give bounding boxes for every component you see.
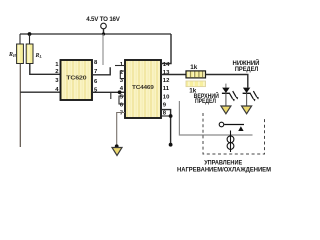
svg-text:11: 11 xyxy=(163,86,170,92)
wire U2 pin 13 to R1 xyxy=(161,74,186,76)
svg-text:10: 10 xyxy=(163,95,170,101)
node end dot xyxy=(169,143,173,147)
resistor R1 1k xyxy=(186,71,206,78)
heater coil xyxy=(227,131,234,153)
wire dangling stub xyxy=(110,92,112,99)
node ground junction xyxy=(115,144,119,148)
wire U2 pins 2-3 bracket xyxy=(120,71,125,79)
IC U2 TC4469 xyxy=(125,60,161,118)
node junction U2 pin 4 xyxy=(118,90,122,94)
wire U2 pin 9 down xyxy=(161,110,171,145)
wire U1 pin 7 stub up xyxy=(92,67,110,75)
ground symbol main xyxy=(112,148,122,156)
switch actuator arrow xyxy=(238,126,243,131)
wire RH bottom long drop xyxy=(19,64,21,148)
switch contact xyxy=(219,122,224,127)
svg-text:1k: 1k xyxy=(190,64,198,71)
wire bus corner to U2 pin 14 xyxy=(161,34,171,64)
IC U1 TC620 xyxy=(61,60,93,100)
wire U2 pins 5-6 bracket xyxy=(119,96,125,104)
ground symbol LED D2 xyxy=(242,106,252,114)
svg-text:ПРЕДЕЛ: ПРЕДЕЛ xyxy=(235,66,259,73)
wire R1 to LED2 corner xyxy=(206,75,248,88)
wire U2 pin 1 stub xyxy=(115,65,125,67)
resistor RH xyxy=(17,44,24,64)
LED D2 lower limit xyxy=(243,88,259,106)
wire RL top xyxy=(29,34,31,44)
wire U1 pin 5 to U2 pin 4 xyxy=(92,91,125,93)
wire power drop xyxy=(102,34,104,65)
svg-text:TC4469: TC4469 xyxy=(132,85,154,91)
svg-text:УПРАВЛЕНИЕ: УПРАВЛЕНИЕ xyxy=(204,160,242,167)
svg-text:TC620: TC620 xyxy=(66,76,86,82)
wire RH top xyxy=(19,34,21,44)
node junction supply xyxy=(102,32,105,35)
node junction RL xyxy=(28,32,32,36)
node junction pin 8 xyxy=(169,114,173,118)
wire U2 pin 8 stub xyxy=(161,115,171,117)
control box dashed xyxy=(203,113,265,154)
svg-text:НАГРЕВАНИЕМ/ОХЛАЖДЕНИЕМ: НАГРЕВАНИЕМ/ОХЛАЖДЕНИЕМ xyxy=(177,167,271,174)
resistor RL xyxy=(26,44,33,64)
wire RL to U1 pin 2 xyxy=(30,64,61,75)
wire to U1 pin 4 xyxy=(20,91,60,93)
resistor R2 1k faint xyxy=(186,81,206,87)
wire U2 pin 7 to ground xyxy=(117,113,125,147)
ground symbol LED D1 xyxy=(221,106,231,114)
wire control feed xyxy=(179,101,252,135)
svg-text:ПРЕДЕЛ: ПРЕДЕЛ xyxy=(195,98,216,105)
svg-text:4.5V TO 16V: 4.5V TO 16V xyxy=(86,16,121,23)
wire terminal to bus xyxy=(103,29,105,34)
wire top power bus xyxy=(20,33,171,35)
svg-text:12: 12 xyxy=(163,78,170,84)
LED D1 upper limit xyxy=(222,84,238,106)
supply terminal xyxy=(101,23,107,29)
